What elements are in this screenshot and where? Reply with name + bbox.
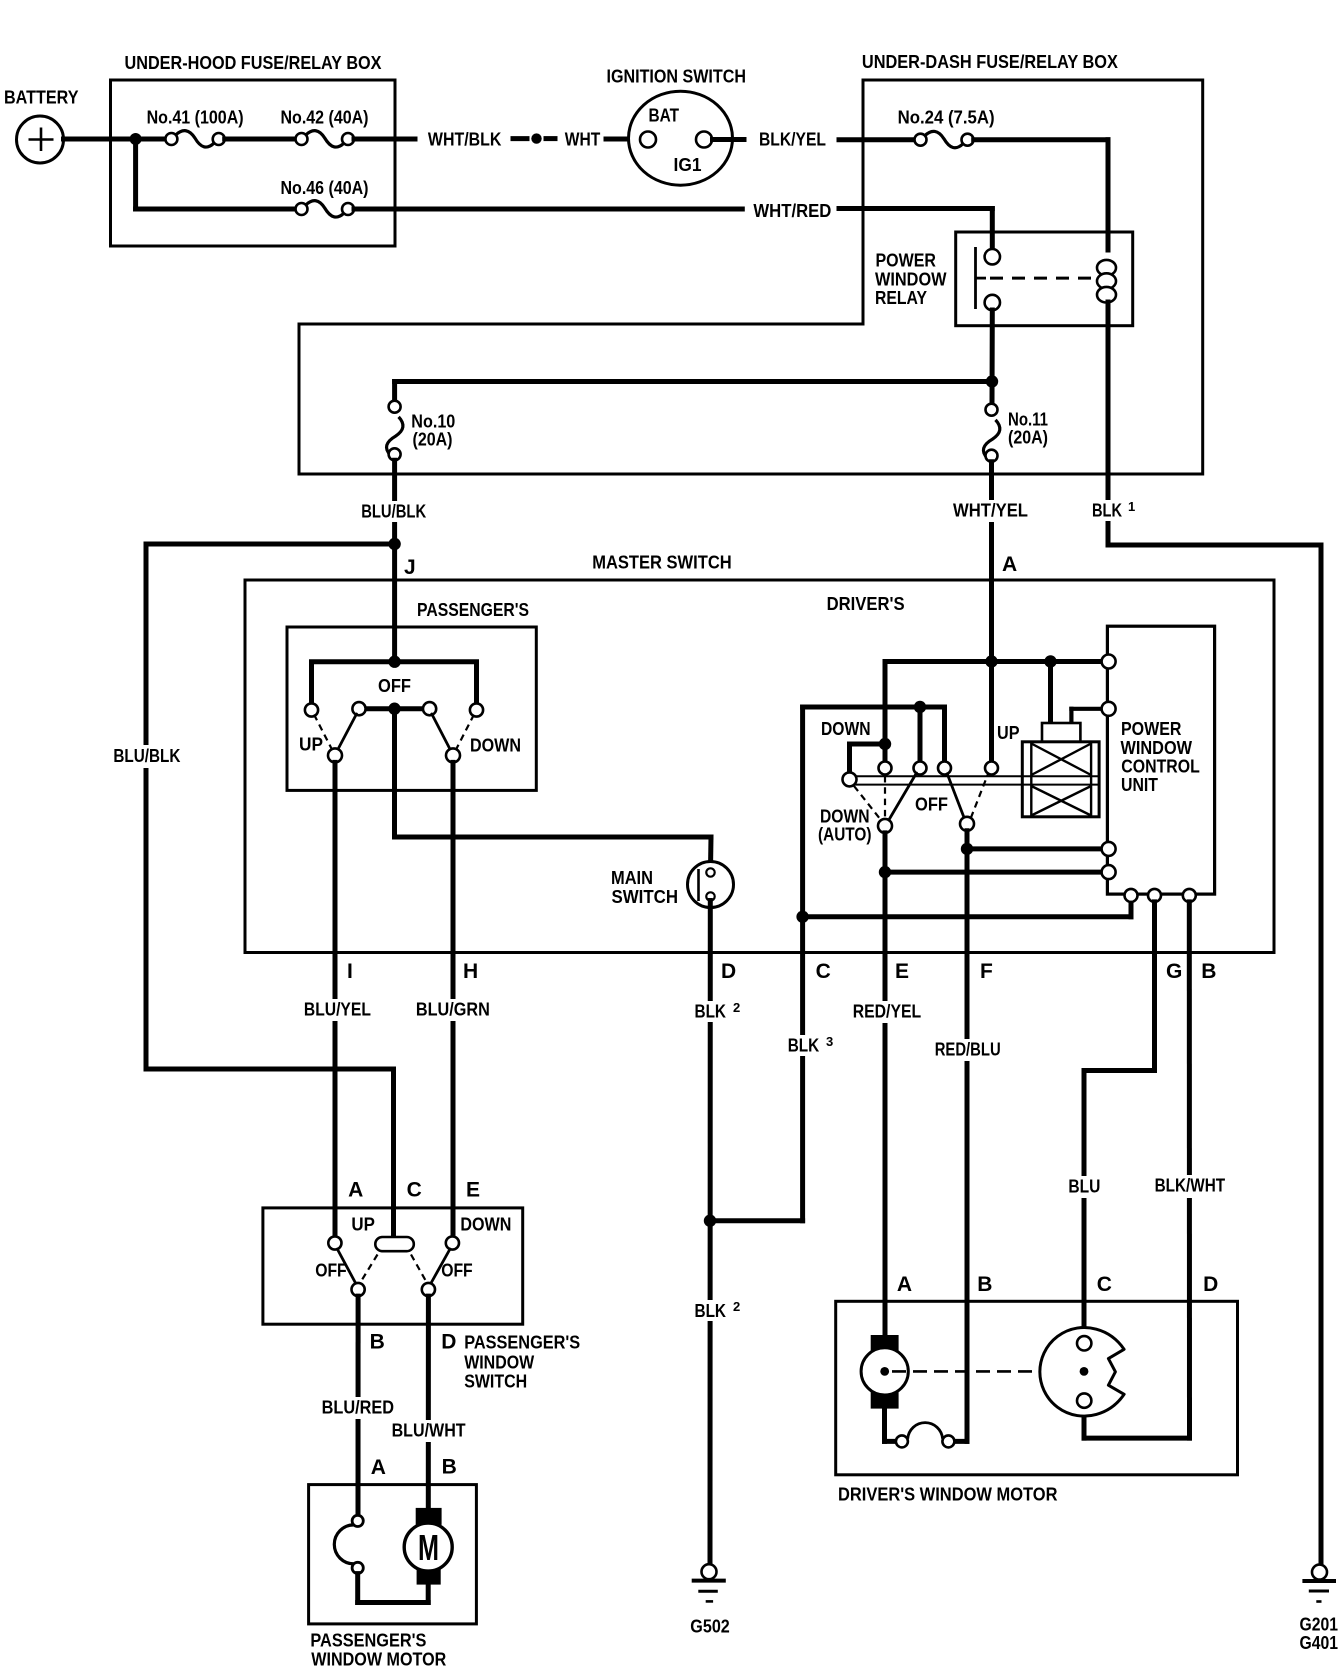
svg-text:C: C (1097, 1273, 1112, 1296)
svg-text:BLU/BLK: BLU/BLK (361, 502, 426, 522)
svg-text:No.46 (40A): No.46 (40A) (281, 178, 369, 198)
label PASSENGER'S WINDOW MOTOR (310, 1631, 446, 1670)
control unit pins (bottom) (1125, 889, 1196, 902)
solid leg A-B (337, 1249, 356, 1284)
ground G502 (690, 1564, 730, 1636)
wire pivot branch (850, 744, 886, 773)
contact DOWN(AUTO) (878, 819, 892, 833)
svg-text:B: B (1201, 960, 1216, 983)
svg-text:H: H (463, 960, 478, 983)
wire passenger OFF bar (359, 706, 430, 711)
wire WHT/RED to power window relay (839, 209, 992, 251)
wire bus to fuse No.10 (395, 382, 992, 402)
svg-text:BLU/GRN: BLU/GRN (416, 1000, 490, 1020)
wire BLK/YEL into under-dash box (839, 137, 915, 142)
label BLU/BLK (left) (110, 745, 184, 768)
wire BLU/BLK (fuse10 down to master switch J) (392, 460, 397, 663)
label DOWN (AUTO) (818, 807, 872, 845)
svg-text:E: E (466, 1179, 480, 1202)
power window relay (875, 232, 1133, 326)
dashed leg pill-D (411, 1255, 427, 1284)
pin letters master switch row (347, 960, 1216, 983)
rocker pill (375, 1237, 414, 1251)
commutator contact top (352, 1515, 363, 1526)
wire dash-dot splice (513, 133, 555, 143)
svg-text:No.42 (40A): No.42 (40A) (281, 108, 369, 128)
svg-text:DOWN: DOWN (460, 1215, 511, 1235)
label BLK 2 (upper) (691, 1000, 745, 1022)
passenger's window switch (263, 1179, 523, 1354)
wire BLU/WHT (switch D to motor) (426, 1296, 431, 1508)
solid leg OFF (driver) (947, 774, 964, 818)
svg-text:BLU/YEL: BLU/YEL (304, 1000, 371, 1020)
svg-text:(20A): (20A) (1008, 428, 1048, 448)
svg-text:BLK: BLK (1092, 501, 1122, 521)
dashed leg to DOWN (456, 715, 475, 751)
svg-text:BLU/RED: BLU/RED (322, 1398, 395, 1418)
svg-text:PASSENGER'S: PASSENGER'S (310, 1631, 426, 1651)
motor (driver) (861, 1335, 908, 1409)
ignition switch (607, 67, 747, 186)
node F junction (961, 843, 973, 855)
svg-text:I: I (347, 960, 353, 983)
fuse No.46 (40A) (281, 178, 369, 217)
svg-text:(AUTO): (AUTO) (818, 825, 872, 845)
svg-text:No.11: No.11 (1008, 410, 1048, 430)
svg-text:OFF: OFF (378, 676, 411, 696)
wire fuse46 to WHT/RED label (354, 207, 742, 212)
svg-text:CONTROL: CONTROL (1121, 757, 1200, 777)
svg-text:UNDER-HOOD FUSE/RELAY BOX: UNDER-HOOD FUSE/RELAY BOX (125, 53, 382, 73)
svg-text:WINDOW: WINDOW (875, 270, 947, 290)
svg-text:BLU: BLU (1068, 1177, 1100, 1197)
svg-text:1: 1 (1128, 499, 1135, 514)
svg-text:BLK/WHT: BLK/WHT (1155, 1176, 1226, 1196)
label BLK 1 (1088, 499, 1138, 521)
label BLU/YEL (300, 999, 376, 1021)
solid leg DOWN (432, 714, 451, 751)
svg-text:WINDOW: WINDOW (464, 1353, 534, 1373)
node E junction (879, 866, 891, 878)
wire control unit drop (1048, 662, 1053, 724)
driver's window motor box (836, 1273, 1238, 1505)
dashed leg pivot to DOWN(AUTO) (854, 786, 881, 820)
fuse No.42 (40A) (281, 108, 369, 148)
svg-text:M: M (418, 1527, 439, 1568)
fuse No.41 (100A) (147, 108, 244, 148)
node passenger feed junction (388, 656, 400, 668)
label BLK 3 (784, 1034, 838, 1056)
label RED/BLU (931, 1039, 1007, 1061)
wire commutator to motor (358, 1574, 429, 1603)
commutator arc (334, 1525, 354, 1564)
node passenger OFF junction (388, 703, 400, 715)
node A bus junction (985, 655, 997, 667)
svg-text:No.41 (100A): No.41 (100A) (147, 108, 244, 128)
node pivot branch junction (879, 738, 891, 750)
contact circles passenger master (305, 702, 483, 717)
dashed leg DOWN vertical (884, 776, 886, 818)
label BLK/WHT (1151, 1175, 1229, 1198)
passenger's window motor box (309, 1485, 477, 1624)
node battery feed junction (130, 133, 142, 145)
under-dash fuse/relay box (299, 52, 1203, 474)
svg-text:UP: UP (997, 723, 1020, 743)
dashed leg to UP (314, 715, 333, 751)
svg-text:No.24 (7.5A): No.24 (7.5A) (898, 108, 995, 128)
svg-text:POWER: POWER (1121, 719, 1182, 739)
wire linkage bar (853, 776, 1099, 784)
gear plate (driver motor) (1040, 1328, 1124, 1417)
svg-text:WINDOW: WINDOW (1121, 738, 1193, 758)
svg-text:MASTER SWITCH: MASTER SWITCH (592, 553, 732, 573)
svg-text:G201: G201 (1300, 1615, 1339, 1635)
svg-text:B: B (442, 1456, 457, 1479)
contact B passenger switch (352, 1283, 365, 1296)
svg-text:(20A): (20A) (413, 430, 453, 450)
svg-text:DRIVER'S: DRIVER'S (827, 594, 905, 614)
svg-text:F: F (980, 960, 993, 983)
svg-text:UP: UP (351, 1215, 375, 1235)
wire ignition to BLK/YEL (713, 137, 745, 142)
wire BLU/BLK left branch (J to passenger switch C feed) (146, 544, 395, 1238)
svg-text:RED/BLU: RED/BLU (935, 1040, 1001, 1060)
wire F to control unit pin (967, 846, 1102, 851)
node relay/fuse11 junction (986, 375, 998, 387)
svg-text:BLK: BLK (788, 1036, 820, 1056)
control unit pins (left) (1102, 655, 1116, 880)
svg-text:SWITCH: SWITCH (612, 887, 679, 907)
wire E (DOWN(AUTO) to driver motor A) (883, 833, 888, 1336)
svg-text:D: D (721, 960, 736, 983)
svg-text:PASSENGER'S: PASSENGER'S (417, 600, 529, 620)
wire BLK (relay coil to right-side ground run) (1108, 302, 1321, 1564)
motor M (passenger) (404, 1508, 452, 1585)
contact UP passenger master (328, 748, 342, 762)
wire E to control unit pin (885, 870, 1102, 875)
svg-text:BLK: BLK (695, 1301, 727, 1321)
pivot circle (843, 772, 857, 786)
svg-text:UNDER-DASH FUSE/RELAY BOX: UNDER-DASH FUSE/RELAY BOX (862, 52, 1118, 72)
label BLU/GRN (412, 999, 492, 1021)
svg-text:IG1: IG1 (674, 155, 702, 175)
svg-text:BLK/YEL: BLK/YEL (759, 130, 826, 150)
wire C riser (BLK3 to contact) (803, 707, 945, 1221)
svg-text:3: 3 (826, 1034, 833, 1049)
contact E passenger switch (446, 1236, 459, 1249)
contact circles driver switch (879, 762, 999, 775)
node control-unit drop junction (1044, 655, 1056, 667)
contact OFF (driver) (960, 817, 974, 831)
svg-text:WINDOW MOTOR: WINDOW MOTOR (311, 1650, 446, 1670)
svg-text:D: D (441, 1331, 456, 1354)
svg-text:RED/YEL: RED/YEL (853, 1002, 922, 1022)
wire motor jumper (885, 1409, 968, 1448)
svg-text:BLK: BLK (695, 1002, 727, 1022)
label BLU/WHT (388, 1420, 469, 1442)
solid leg E-D (431, 1249, 450, 1284)
svg-text:G502: G502 (690, 1617, 730, 1637)
svg-text:WHT/BLK: WHT/BLK (428, 130, 502, 150)
svg-text:B: B (977, 1273, 992, 1296)
actuator connector (1042, 723, 1080, 742)
svg-text:WHT/RED: WHT/RED (753, 201, 831, 221)
node driver OFF-bar junction (914, 701, 926, 713)
relay contact (976, 247, 1097, 310)
fuse No.11 (20A) (983, 404, 1048, 462)
wire I (passenger UP to window switch A) (333, 762, 338, 1236)
relay coil (1097, 260, 1116, 303)
svg-text:OFF: OFF (441, 1261, 473, 1281)
label BLK 2 (lower) (691, 1299, 745, 1321)
svg-text:J: J (404, 556, 416, 579)
svg-text:DRIVER'S WINDOW MOTOR: DRIVER'S WINDOW MOTOR (838, 1485, 1058, 1505)
svg-text:BATTERY: BATTERY (4, 88, 79, 108)
wire fuse41 to fuse42 (225, 137, 296, 142)
svg-text:2: 2 (733, 1299, 740, 1314)
label BLU/BLK (359, 501, 429, 522)
dashed leg OFF to UP (971, 774, 988, 818)
power window control unit (1107, 626, 1214, 894)
contact DOWN passenger master (446, 748, 460, 762)
svg-text:MAIN: MAIN (611, 868, 653, 888)
solid leg UP (337, 714, 356, 751)
actuator box (1022, 742, 1099, 817)
wire passenger common down to main switch (395, 709, 712, 869)
svg-text:DOWN: DOWN (470, 736, 521, 756)
svg-text:A: A (348, 1179, 363, 1202)
wire H (passenger DOWN to window switch E) (451, 762, 456, 1236)
master switch box (245, 553, 1274, 953)
wire passenger bracket (312, 662, 477, 704)
wire B (control unit to driver motor D) (1084, 902, 1190, 1438)
svg-text:G: G (1166, 960, 1182, 983)
svg-text:G401: G401 (1300, 1633, 1339, 1653)
wire fuse42 to WHT/BLK label (354, 137, 415, 142)
svg-text:WHT/YEL: WHT/YEL (953, 501, 1028, 521)
main switch (611, 862, 734, 908)
wire relay output to fuse No.11 (990, 310, 995, 404)
label BLU (1064, 1176, 1106, 1198)
svg-text:A: A (897, 1273, 912, 1296)
commutator contact bottom (352, 1562, 363, 1573)
passenger's switch box (287, 600, 536, 790)
wire fuse46 row (WHT/RED feed) (136, 139, 296, 209)
contact D passenger switch (422, 1283, 435, 1296)
node J junction (388, 538, 400, 550)
ground G201/G401 (1300, 1565, 1339, 1653)
fuse No.10 (20A) (387, 401, 456, 461)
svg-text:BAT: BAT (649, 106, 680, 126)
wire F (OFF to driver motor B) (965, 831, 970, 1442)
svg-text:No.10: No.10 (411, 412, 455, 432)
wire C junction to control unit pin (803, 902, 1131, 917)
label PASSENGER'S WINDOW SWITCH (464, 1333, 580, 1392)
svg-text:POWER: POWER (876, 251, 937, 271)
dashed motor-gear link (892, 1370, 1076, 1373)
svg-text:BLU/WHT: BLU/WHT (392, 1421, 466, 1441)
svg-text:OFF: OFF (315, 1261, 347, 1281)
solid leg DOWN(AUTO) (889, 773, 917, 820)
svg-text:BLU/BLK: BLU/BLK (113, 746, 180, 766)
svg-text:DOWN: DOWN (820, 807, 870, 827)
node D/C junction (704, 1215, 716, 1227)
svg-text:SWITCH: SWITCH (464, 1372, 527, 1392)
wire WHT to ignition switch (606, 137, 641, 142)
wire driver top feed bus (885, 662, 1102, 762)
label RED/YEL (849, 1001, 925, 1023)
wire BLU/RED (switch B to motor) (356, 1296, 361, 1515)
svg-text:E: E (895, 960, 909, 983)
wire control unit pin2 link (1071, 709, 1102, 723)
svg-text:WHT: WHT (565, 130, 601, 150)
svg-text:IGNITION SWITCH: IGNITION SWITCH (607, 67, 747, 87)
wire C to D link (710, 1218, 803, 1223)
dashed leg pill-B (360, 1255, 378, 1284)
svg-text:RELAY: RELAY (875, 288, 927, 308)
svg-text:2: 2 (733, 1000, 740, 1015)
svg-text:A: A (1002, 553, 1017, 576)
wire D (main switch to G502) (708, 901, 713, 1564)
svg-text:DOWN: DOWN (821, 719, 871, 739)
label WHT/YEL (950, 500, 1031, 522)
fuse No.24 (7.5A) (898, 108, 995, 148)
label BLU/RED (318, 1397, 397, 1419)
svg-text:B: B (370, 1331, 385, 1354)
svg-text:D: D (1203, 1273, 1218, 1296)
under-hood fuse/relay box (111, 53, 396, 246)
svg-text:PASSENGER'S: PASSENGER'S (464, 1333, 580, 1353)
wire battery to fuse No.41 (64, 137, 166, 142)
wire fuse24 to relay coil feed (974, 137, 1108, 142)
svg-text:UP: UP (299, 735, 323, 755)
wire A (fuse11 down through master switch to UP contact) (989, 462, 994, 762)
svg-text:C: C (407, 1179, 422, 1202)
battery (4, 88, 79, 164)
svg-text:OFF: OFF (915, 795, 948, 815)
contact A passenger switch (328, 1236, 341, 1249)
wire G (control unit to driver motor C) (1084, 902, 1155, 1337)
svg-text:A: A (371, 1456, 386, 1479)
node C junction (796, 911, 808, 923)
svg-text:C: C (816, 960, 831, 983)
svg-text:UNIT: UNIT (1121, 775, 1158, 795)
